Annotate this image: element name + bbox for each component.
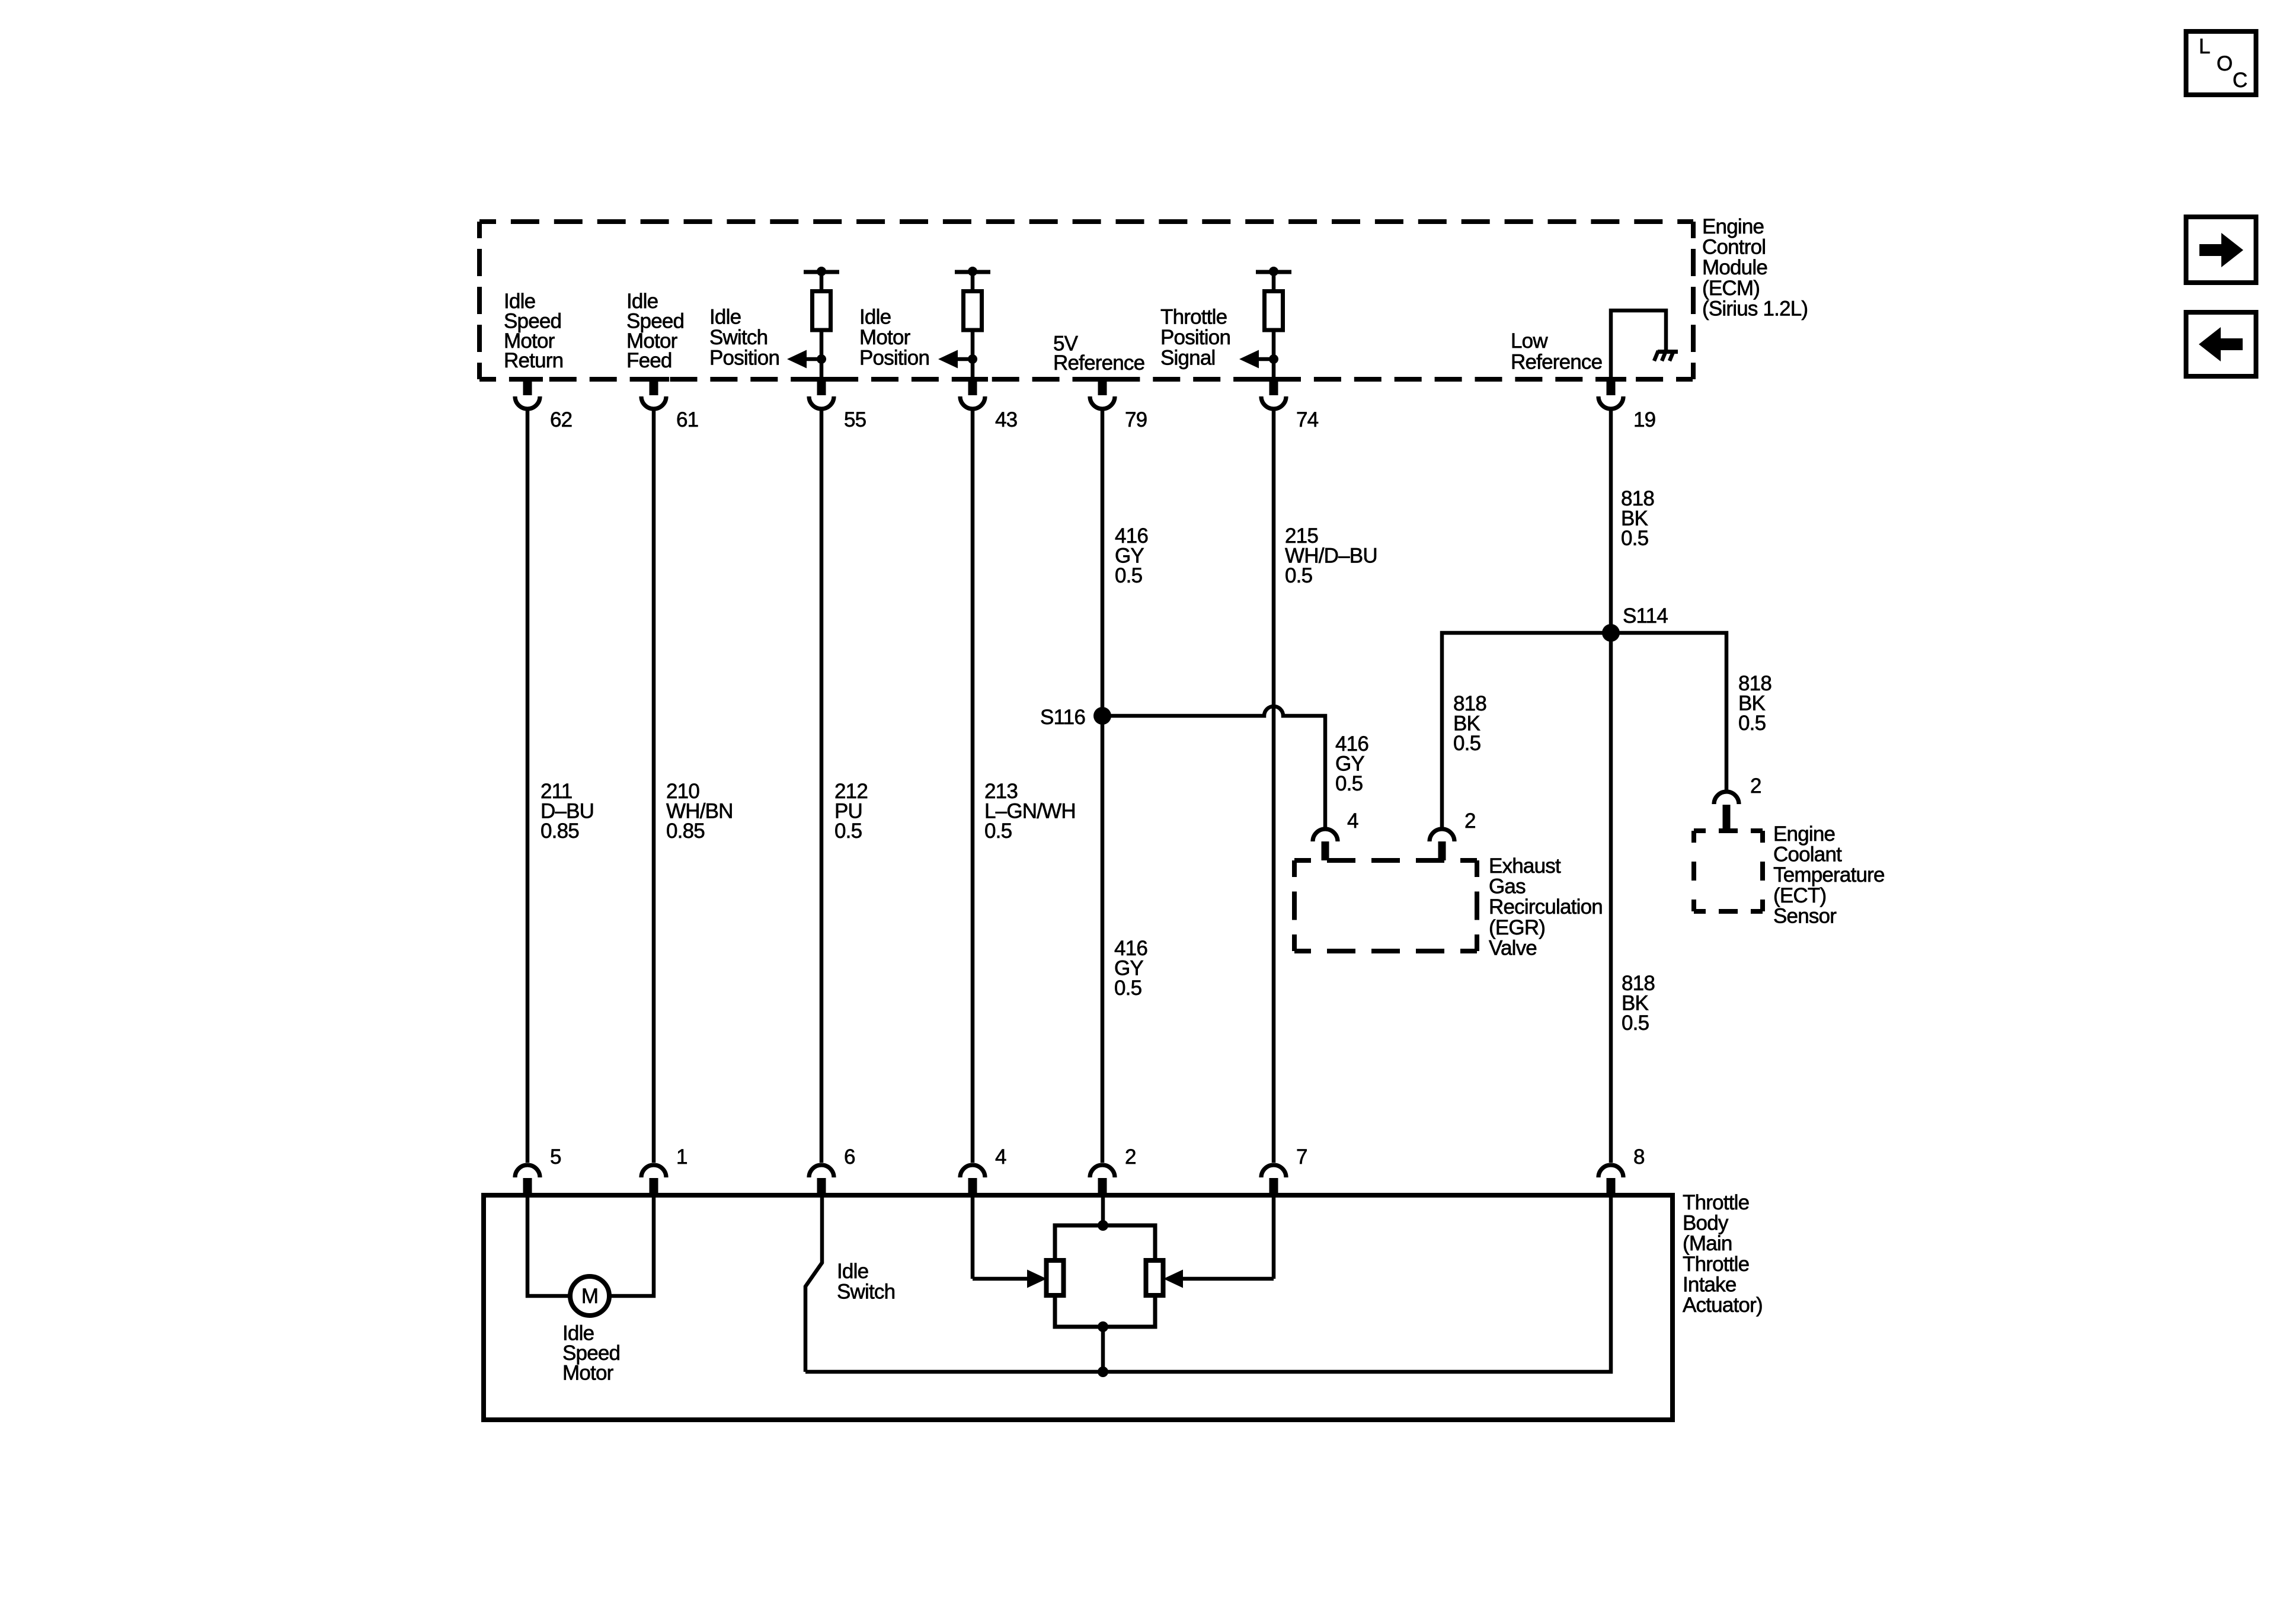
EGR valve component box (Exhaust Gas Recirculation valve) xyxy=(1294,860,1477,951)
label: Idle Speed Motor Return xyxy=(504,290,563,372)
svg-text:(EGR): (EGR) xyxy=(1489,916,1545,939)
wire: common low reference (idle switch / bridge / pin 8) xyxy=(805,1195,1611,1377)
svg-text:0.5: 0.5 xyxy=(1738,712,1766,735)
throttle body connector pin 2 xyxy=(1090,1145,1136,1196)
svg-text:74: 74 xyxy=(1296,408,1319,431)
ECM connector pin 61 xyxy=(641,379,698,431)
svg-text:Gas: Gas xyxy=(1489,875,1526,898)
wire 212 PU 0.5 (ECM pin 55 to throttle body pin 6) xyxy=(820,411,824,1163)
wire label: 818 BK 0.5 (below S114) xyxy=(1622,972,1655,1035)
svg-text:Module: Module xyxy=(1702,256,1767,279)
label: Throttle Position Signal xyxy=(1160,306,1230,370)
resistor R4 (bridge left element) xyxy=(1047,1260,1064,1295)
label: Idle Switch Position xyxy=(709,306,779,370)
throttle body connector pin 5 xyxy=(515,1145,561,1196)
label: Throttle Body (Main Throttle Intake Actuator) xyxy=(1683,1191,1763,1317)
svg-text:Position: Position xyxy=(859,347,929,370)
svg-text:0.5: 0.5 xyxy=(1335,772,1363,795)
svg-text:(Main: (Main xyxy=(1683,1232,1732,1255)
svg-text:Throttle: Throttle xyxy=(1683,1253,1749,1276)
wire 211 D-BU 0.85 (ECM pin 62 to throttle body pin 5) xyxy=(526,411,530,1163)
throttle body connector pin 8 xyxy=(1598,1145,1645,1196)
svg-text:Actuator): Actuator) xyxy=(1683,1294,1763,1317)
svg-text:Motor: Motor xyxy=(859,326,911,349)
label: Idle Motor Position xyxy=(859,306,929,370)
node S114 (splice on low reference) xyxy=(1602,604,1668,642)
svg-text:55: 55 xyxy=(844,408,866,431)
EGR valve connector pin 2 xyxy=(1430,809,1476,860)
svg-text:0.5: 0.5 xyxy=(1621,527,1648,550)
wire: pin 4 riser with arrow into left bridge resistor xyxy=(973,1195,1047,1288)
throttle body connector pin 7 xyxy=(1261,1145,1307,1196)
svg-text:Switch: Switch xyxy=(709,326,768,349)
svg-text:43: 43 xyxy=(995,408,1017,431)
throttle body connector pin 1 xyxy=(641,1145,687,1196)
svg-text:0.5: 0.5 xyxy=(1114,977,1141,1000)
svg-text:Position: Position xyxy=(1160,326,1230,349)
wire label: 211 D-BU 0.85 xyxy=(541,780,594,843)
svg-text:1: 1 xyxy=(676,1145,687,1169)
label: Engine Control Module (ECM) (Sirius 1.2L) xyxy=(1702,215,1808,320)
ECM connector pin 19 xyxy=(1598,379,1655,431)
wire label: 818 BK 0.5 (above S114) xyxy=(1621,487,1654,550)
svg-text:Intake: Intake xyxy=(1683,1273,1737,1296)
wire: S114 branch to EGR pin 2 xyxy=(1442,633,1611,828)
svg-text:(ECM): (ECM) xyxy=(1702,277,1760,300)
svg-text:0.85: 0.85 xyxy=(666,820,705,843)
svg-text:Valve: Valve xyxy=(1489,936,1537,959)
svg-text:Switch: Switch xyxy=(837,1281,895,1304)
svg-text:0.5: 0.5 xyxy=(984,820,1012,843)
svg-text:(Sirius 1.2L): (Sirius 1.2L) xyxy=(1702,297,1808,320)
wire label: 416 GY 0.5 (EGR branch) xyxy=(1335,732,1368,795)
label: Idle Speed Motor xyxy=(562,1322,620,1385)
ECT sensor connector pin 2 xyxy=(1714,774,1761,831)
wire 215 WH/D-BU 0.5 (ECM pin 74 to throttle body pin 7) xyxy=(1272,411,1276,1163)
ECM connector pin 62 xyxy=(515,379,572,431)
wire label: 416 GY 0.5 (lower) xyxy=(1114,937,1147,1000)
resistor R2 (idle motor position pull-up) with supply rail and output arrow xyxy=(938,267,990,379)
svg-text:79: 79 xyxy=(1125,408,1147,431)
TP sensor bridge frame xyxy=(1055,1220,1155,1332)
svg-text:Idle: Idle xyxy=(859,306,891,329)
throttle body component box xyxy=(484,1195,1673,1420)
forward navigation arrow icon xyxy=(2186,217,2256,283)
svg-text:19: 19 xyxy=(1633,408,1655,431)
ECM module box (Engine Control Module) xyxy=(479,222,1693,379)
wire label: 213 L-GN/WH 0.5 xyxy=(984,780,1076,843)
node S116 (splice on 5V reference) xyxy=(1040,706,1111,729)
svg-text:L: L xyxy=(2199,35,2210,58)
wire label: 416 GY 0.5 (upper) xyxy=(1115,524,1148,587)
svg-text:Idle: Idle xyxy=(709,306,741,329)
svg-text:0.85: 0.85 xyxy=(541,820,579,843)
wire: pin 2 riser to bridge top xyxy=(1101,1195,1105,1225)
svg-text:0.5: 0.5 xyxy=(1622,1012,1649,1035)
EGR valve connector pin 4 xyxy=(1313,809,1358,860)
svg-text:Return: Return xyxy=(504,349,563,372)
svg-text:0.5: 0.5 xyxy=(1285,564,1312,587)
svg-text:Signal: Signal xyxy=(1160,347,1216,370)
svg-text:Reference: Reference xyxy=(1053,351,1144,375)
svg-text:Idle: Idle xyxy=(837,1260,868,1283)
label: Idle Speed Motor Feed xyxy=(626,290,684,372)
svg-text:Body: Body xyxy=(1683,1212,1729,1235)
svg-text:Coolant: Coolant xyxy=(1773,843,1842,866)
wire label: 215 WH/D-BU 0.5 xyxy=(1285,524,1377,587)
throttle body connector pin 4 xyxy=(960,1145,1006,1196)
svg-text:S116: S116 xyxy=(1040,706,1085,729)
svg-text:7: 7 xyxy=(1296,1145,1307,1169)
svg-text:Position: Position xyxy=(709,347,779,370)
svg-text:Sensor: Sensor xyxy=(1773,904,1837,927)
wire: pin 5 to idle speed motor xyxy=(527,1195,570,1296)
svg-text:C: C xyxy=(2233,69,2247,92)
wire label: 212 PU 0.5 xyxy=(834,780,868,843)
wire: Low Reference internal to ground xyxy=(1611,311,1666,379)
svg-text:0.5: 0.5 xyxy=(1453,732,1480,755)
svg-text:Engine: Engine xyxy=(1773,822,1835,846)
svg-text:4: 4 xyxy=(995,1145,1006,1169)
label: Engine Coolant Temperature (ECT) Sensor xyxy=(1773,822,1885,927)
svg-text:Low: Low xyxy=(1511,329,1548,353)
wire: pin 7 riser with arrow into right bridge resistor xyxy=(1163,1195,1274,1288)
svg-text:0.5: 0.5 xyxy=(1115,564,1142,587)
throttle body connector pin 6 xyxy=(809,1145,855,1196)
svg-text:2: 2 xyxy=(1750,774,1761,798)
motor M1: Idle Speed Motor xyxy=(570,1276,609,1315)
resistor R3 (throttle position pull-up) with supply rail and output arrow xyxy=(1239,267,1291,379)
svg-text:Throttle: Throttle xyxy=(1683,1191,1749,1214)
svg-text:2: 2 xyxy=(1125,1145,1136,1169)
back navigation arrow icon xyxy=(2186,312,2256,376)
wire 818 BK 0.5 (ECM pin 19, Low Reference, to throttle body pin 8) xyxy=(1609,411,1613,1163)
svg-text:62: 62 xyxy=(550,408,572,431)
svg-text:Engine: Engine xyxy=(1702,215,1764,238)
svg-text:Recirculation: Recirculation xyxy=(1489,895,1603,918)
svg-text:Motor: Motor xyxy=(562,1362,614,1385)
wire label: 818 BK 0.5 (EGR ground branch) xyxy=(1453,692,1486,755)
wire: idle speed motor to pin 1 xyxy=(609,1195,654,1296)
svg-text:Control: Control xyxy=(1702,236,1766,259)
svg-text:4: 4 xyxy=(1347,809,1358,833)
resistor R5 (bridge right element) xyxy=(1146,1260,1163,1295)
svg-text:M: M xyxy=(581,1285,598,1308)
LOC reference icon box xyxy=(2186,31,2256,95)
ECM connector pin 79 xyxy=(1090,379,1147,431)
switch SW1: Idle Switch xyxy=(805,1195,822,1372)
wire: S114 branch to ECT sensor pin 2 xyxy=(1611,633,1726,790)
ground (ECM internal chassis ground) xyxy=(1654,350,1678,361)
resistor R1 (idle switch position pull-up) with supply rail and output arrow xyxy=(787,267,839,379)
wire 416 GY 0.5 (ECM pin 79, 5V Reference, to throttle body pin 2) xyxy=(1101,411,1105,1163)
label: Exhaust Gas Recirculation (EGR) Valve xyxy=(1489,854,1603,959)
ECM connector pin 74 xyxy=(1261,379,1319,431)
ECM connector pin 55 xyxy=(809,379,866,431)
ECT sensor component box (Engine Coolant Temperature sensor) xyxy=(1694,831,1763,911)
svg-text:(ECT): (ECT) xyxy=(1773,884,1826,907)
svg-text:S114: S114 xyxy=(1623,604,1668,628)
svg-text:Throttle: Throttle xyxy=(1160,306,1227,329)
wire label: 210 WH/BN 0.85 xyxy=(666,780,733,843)
svg-text:5: 5 xyxy=(550,1145,561,1169)
svg-text:0.5: 0.5 xyxy=(834,820,862,843)
label: 5V Reference xyxy=(1053,332,1144,375)
wire 210 WH/BN 0.85 (ECM pin 61 to throttle body pin 1) xyxy=(652,411,656,1163)
wire 213 L-GN/WH 0.5 (ECM pin 43 to throttle body pin 4) xyxy=(971,411,975,1163)
wire: S116 branch to EGR pin 4 (with hop over wire 215) xyxy=(1102,706,1325,828)
svg-text:O: O xyxy=(2217,52,2232,75)
svg-text:2: 2 xyxy=(1464,809,1476,833)
svg-text:6: 6 xyxy=(844,1145,855,1169)
svg-text:Feed: Feed xyxy=(626,349,672,372)
svg-text:Temperature: Temperature xyxy=(1773,863,1885,886)
wire: bridge bottom to common low reference wire xyxy=(1101,1327,1105,1372)
wire label: 818 BK 0.5 (ECT ground branch) xyxy=(1738,672,1771,735)
svg-text:Reference: Reference xyxy=(1511,350,1602,373)
label: Low Reference xyxy=(1511,329,1602,373)
ECM connector pin 43 xyxy=(960,379,1017,431)
svg-text:61: 61 xyxy=(676,408,698,431)
svg-text:8: 8 xyxy=(1633,1145,1645,1169)
label: Idle Switch xyxy=(837,1260,895,1304)
svg-text:Exhaust: Exhaust xyxy=(1489,854,1561,878)
